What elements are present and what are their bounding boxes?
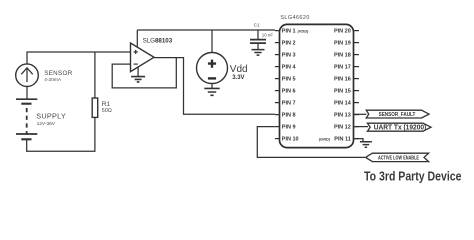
svg-text:PIN 1: PIN 1 xyxy=(282,29,296,35)
pin 8 xyxy=(275,113,296,119)
svg-text:PIN 9: PIN 9 xyxy=(282,125,296,131)
ground (C1) xyxy=(252,50,265,56)
svg-text:PIN 6: PIN 6 xyxy=(282,89,296,95)
pin 15 xyxy=(334,89,359,95)
pin 3 xyxy=(275,53,296,59)
svg-text:SENSOR: SENSOR xyxy=(44,70,73,77)
wire PIN 13 to SENSOR_FAULT port xyxy=(354,113,367,115)
pin 18 xyxy=(334,53,359,59)
svg-text:(GND): (GND) xyxy=(319,136,331,141)
svg-text:PIN 5: PIN 5 xyxy=(282,77,296,83)
pin 12 xyxy=(334,125,359,131)
ground (PIN 11) xyxy=(360,142,372,147)
port SENSOR_FAULT xyxy=(366,110,429,118)
wire R1 top tap xyxy=(94,52,96,98)
svg-text:PIN 2: PIN 2 xyxy=(282,41,296,47)
svg-text:PIN 4: PIN 4 xyxy=(282,65,297,71)
svg-text:PIN 10: PIN 10 xyxy=(282,137,299,143)
pin 17 xyxy=(334,65,359,71)
wire feedback (inverting input loop) xyxy=(112,58,176,88)
resistor R1 xyxy=(92,98,98,117)
wire PIN 11 to ground xyxy=(354,139,364,142)
svg-text:PIN 11: PIN 11 xyxy=(334,137,351,143)
sensor value label xyxy=(44,70,73,83)
ground (op-amp) xyxy=(131,68,145,82)
Vdd value label xyxy=(230,64,248,81)
svg-text:PIN 7: PIN 7 xyxy=(282,101,296,107)
pin 20 xyxy=(334,29,359,35)
R1 value label xyxy=(102,101,112,114)
pin 19 xyxy=(334,41,359,47)
pin 9 xyxy=(275,125,296,131)
pin 4 xyxy=(275,65,297,71)
dashed battery link xyxy=(26,108,28,134)
Vdd rail xyxy=(137,29,275,31)
svg-text:3.3V: 3.3V xyxy=(232,75,244,81)
pin 7 xyxy=(275,101,296,107)
pin 11 (GND) xyxy=(319,136,359,142)
ground (Vdd source) xyxy=(204,84,219,96)
svg-text:(VDD): (VDD) xyxy=(298,28,310,33)
svg-text:50Ω: 50Ω xyxy=(102,108,112,114)
svg-text:PIN 19: PIN 19 xyxy=(334,41,351,47)
pin 13 xyxy=(334,113,359,119)
port UART Tx (19200) xyxy=(367,123,431,132)
port ACTIVE LOW ENABLE xyxy=(367,153,429,161)
svg-text:PIN 13: PIN 13 xyxy=(334,113,351,119)
svg-text:UART Tx (19200): UART Tx (19200) xyxy=(374,125,427,132)
pin 14 xyxy=(334,101,359,107)
op-amp U1 SLG88103 xyxy=(131,43,155,72)
IC U2 SLG46620 body xyxy=(280,24,354,147)
svg-text:4-20mA: 4-20mA xyxy=(44,77,62,83)
svg-text:PIN 14: PIN 14 xyxy=(334,101,352,107)
svg-text:10 nF: 10 nF xyxy=(262,33,274,38)
svg-text:C1: C1 xyxy=(254,23,260,29)
svg-text:PIN 8: PIN 8 xyxy=(282,113,296,119)
wire PIN 9 to ACTIVE LOW ENABLE port xyxy=(257,127,366,158)
svg-text:PIN 12: PIN 12 xyxy=(334,125,351,131)
voltage source Vdd xyxy=(197,53,228,84)
svg-text:PIN 20: PIN 20 xyxy=(334,29,351,35)
pin 6 xyxy=(275,89,296,95)
svg-text:PIN 16: PIN 16 xyxy=(334,77,351,83)
svg-text:SENSOR_FAULT: SENSOR_FAULT xyxy=(379,112,416,118)
wire bottom rail (battery- to R1) xyxy=(27,117,95,151)
svg-text:SLG46620: SLG46620 xyxy=(280,15,309,21)
current source SENSOR xyxy=(16,64,39,87)
svg-text:PIN 18: PIN 18 xyxy=(334,53,351,59)
battery SUPPLY cell 2 xyxy=(16,134,37,139)
wire op-amp output to PIN 8 xyxy=(154,58,275,115)
svg-text:SLG88103: SLG88103 xyxy=(143,38,173,45)
pin 2 xyxy=(275,41,296,47)
pin 16 xyxy=(334,77,359,83)
wire PIN 12 to UART port xyxy=(354,126,369,128)
svg-text:PIN 17: PIN 17 xyxy=(334,65,351,71)
wire top rail (sensor+ to op-amp non-inverting input) xyxy=(27,52,130,64)
pin 5 xyxy=(275,77,296,83)
pin 10 xyxy=(275,137,299,143)
svg-text:ACTIVE LOW ENABLE: ACTIVE LOW ENABLE xyxy=(378,155,419,161)
capacitor C1 xyxy=(250,30,266,50)
svg-text:PIN 15: PIN 15 xyxy=(334,89,351,95)
supply value label xyxy=(36,112,66,128)
svg-text:12V-36V: 12V-36V xyxy=(37,121,56,127)
wire op-amp Vdd tap xyxy=(136,30,138,48)
svg-text:SUPPLY: SUPPLY xyxy=(36,112,66,121)
wire sensor to battery xyxy=(26,87,28,100)
pin 1 (VDD) xyxy=(275,28,309,34)
wire Vdd source top stub xyxy=(211,30,213,53)
svg-text:Vdd: Vdd xyxy=(230,64,248,75)
svg-text:To 3rd Party Device: To 3rd Party Device xyxy=(364,168,462,183)
C1 value label xyxy=(254,23,274,38)
svg-text:PIN 3: PIN 3 xyxy=(282,53,296,59)
battery SUPPLY cell 1 xyxy=(16,99,37,104)
